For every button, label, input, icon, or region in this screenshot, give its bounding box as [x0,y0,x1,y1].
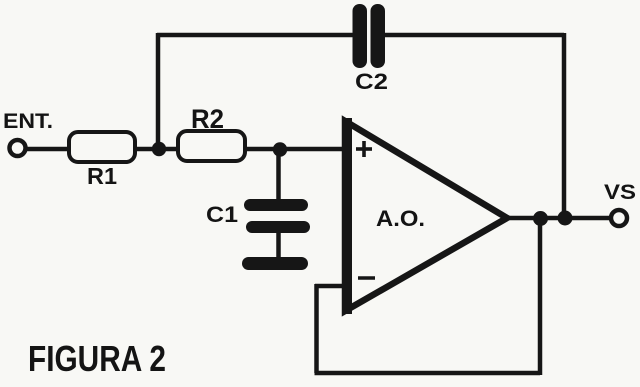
node A junction dot [152,142,166,156]
svg-text:FIGURA 2: FIGURA 2 [28,338,166,379]
resistor R2 [178,131,245,161]
wire: C1 bottom plate to ground bar [276,231,281,260]
resistor R1 [69,132,135,162]
wire: node B down to C1 [276,149,281,202]
wire: feedback left vertical [314,284,319,373]
svg-text:C2: C2 [355,69,388,94]
wire: top-right vertical down to output node [562,33,567,218]
ground bar below C1 [242,257,308,270]
wire: top feedback horizontal (right of C2) [378,33,564,38]
svg-text:A.O.: A.O. [376,206,425,231]
wire: input to R1 [26,147,70,152]
output node dot 1 (feedback tap) [533,211,548,226]
svg-text:ENT.: ENT. [3,110,53,133]
output node dot 2 (C2 return tap) [558,211,573,226]
svg-text:R1: R1 [87,163,117,189]
node B junction dot [273,142,287,156]
terminal VS output [611,210,627,226]
svg-text:C1: C1 [206,202,238,227]
wire: top feedback horizontal (left of C2) [157,33,360,38]
capacitor C1 [244,199,310,233]
wire: minus input stub [315,284,346,289]
op-amp plus input sign [356,141,372,157]
terminal ENT input [10,140,26,156]
svg-text:VS: VS [604,181,636,204]
wire: top-left vertical down to node A [156,33,161,149]
op-amp minus input sign [358,276,375,280]
wire: feedback right vertical up to output [538,218,543,375]
capacitor C2 [353,4,386,68]
wire: op-amp output [505,216,612,221]
wire: R1 to R2 [135,147,178,152]
wire: R2 to op-amp plus input [245,147,348,152]
wire: feedback bottom horizontal [315,371,541,376]
op-amp U1 triangle [345,118,507,314]
